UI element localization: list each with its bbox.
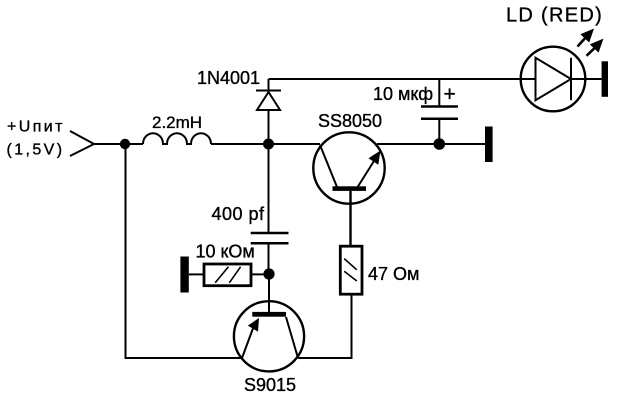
svg-text:47 Ом: 47 Ом <box>368 264 419 284</box>
svg-text:10 мкф: 10 мкф <box>373 84 433 104</box>
capacitor C2 (electrolytic) <box>421 79 458 144</box>
svg-text:+Uпит: +Uпит <box>7 119 65 136</box>
resistor R1 <box>204 264 251 286</box>
input terminal arrow <box>70 131 94 156</box>
diode D1 <box>256 79 281 144</box>
LED cathode terminal bar <box>602 61 608 97</box>
wire R1 to node D <box>251 273 269 275</box>
svg-text:+: + <box>444 83 456 106</box>
svg-text:1N4001: 1N4001 <box>197 68 260 88</box>
resistor R2 <box>340 246 362 294</box>
inductor L1 <box>143 133 211 144</box>
svg-text:10 кОм: 10 кОм <box>196 242 255 262</box>
wire node A to inductor <box>125 143 143 145</box>
svg-text:(1,5V): (1,5V) <box>7 142 65 159</box>
wire Q1 emitter to ground bar 1 <box>377 143 485 145</box>
wire R2 bottom to bottom rail <box>298 295 352 359</box>
LED LD1 <box>521 47 602 112</box>
wire top rail (diode cathode to LED anode) <box>269 78 536 80</box>
svg-text:2.2mH: 2.2mH <box>152 113 202 132</box>
wire node D to Q2 base <box>268 274 270 312</box>
wire feedback loop (node A down and along bottom to Q2) <box>126 144 243 358</box>
capacitor C1 <box>251 144 289 274</box>
node D (Q2 base junction) <box>263 268 274 279</box>
node B (diode anode junction) <box>263 139 274 150</box>
svg-text:LD (RED): LD (RED) <box>506 5 603 27</box>
svg-text:400 pf: 400 pf <box>212 204 266 224</box>
LED light arrow 2 <box>587 39 604 56</box>
wire input terminal to node A <box>94 143 125 145</box>
wire Q1 base lead to R2 <box>349 191 351 246</box>
ground bar 2 <box>180 257 188 293</box>
node A (input junction) <box>120 139 130 149</box>
wire ground bar 2 to R1 <box>189 273 204 275</box>
transistor Q1 <box>313 132 384 203</box>
svg-text:SS8050: SS8050 <box>318 111 382 131</box>
ground bar 1 <box>485 127 493 163</box>
svg-text:S9015: S9015 <box>244 375 296 395</box>
LED light arrow 1 <box>578 29 595 47</box>
wire inductor to Q1 collector <box>211 143 320 145</box>
node C (emitter junction) <box>434 138 446 150</box>
transistor Q2 <box>234 301 304 371</box>
label +Uпит (1,5V) input voltage <box>7 119 65 159</box>
